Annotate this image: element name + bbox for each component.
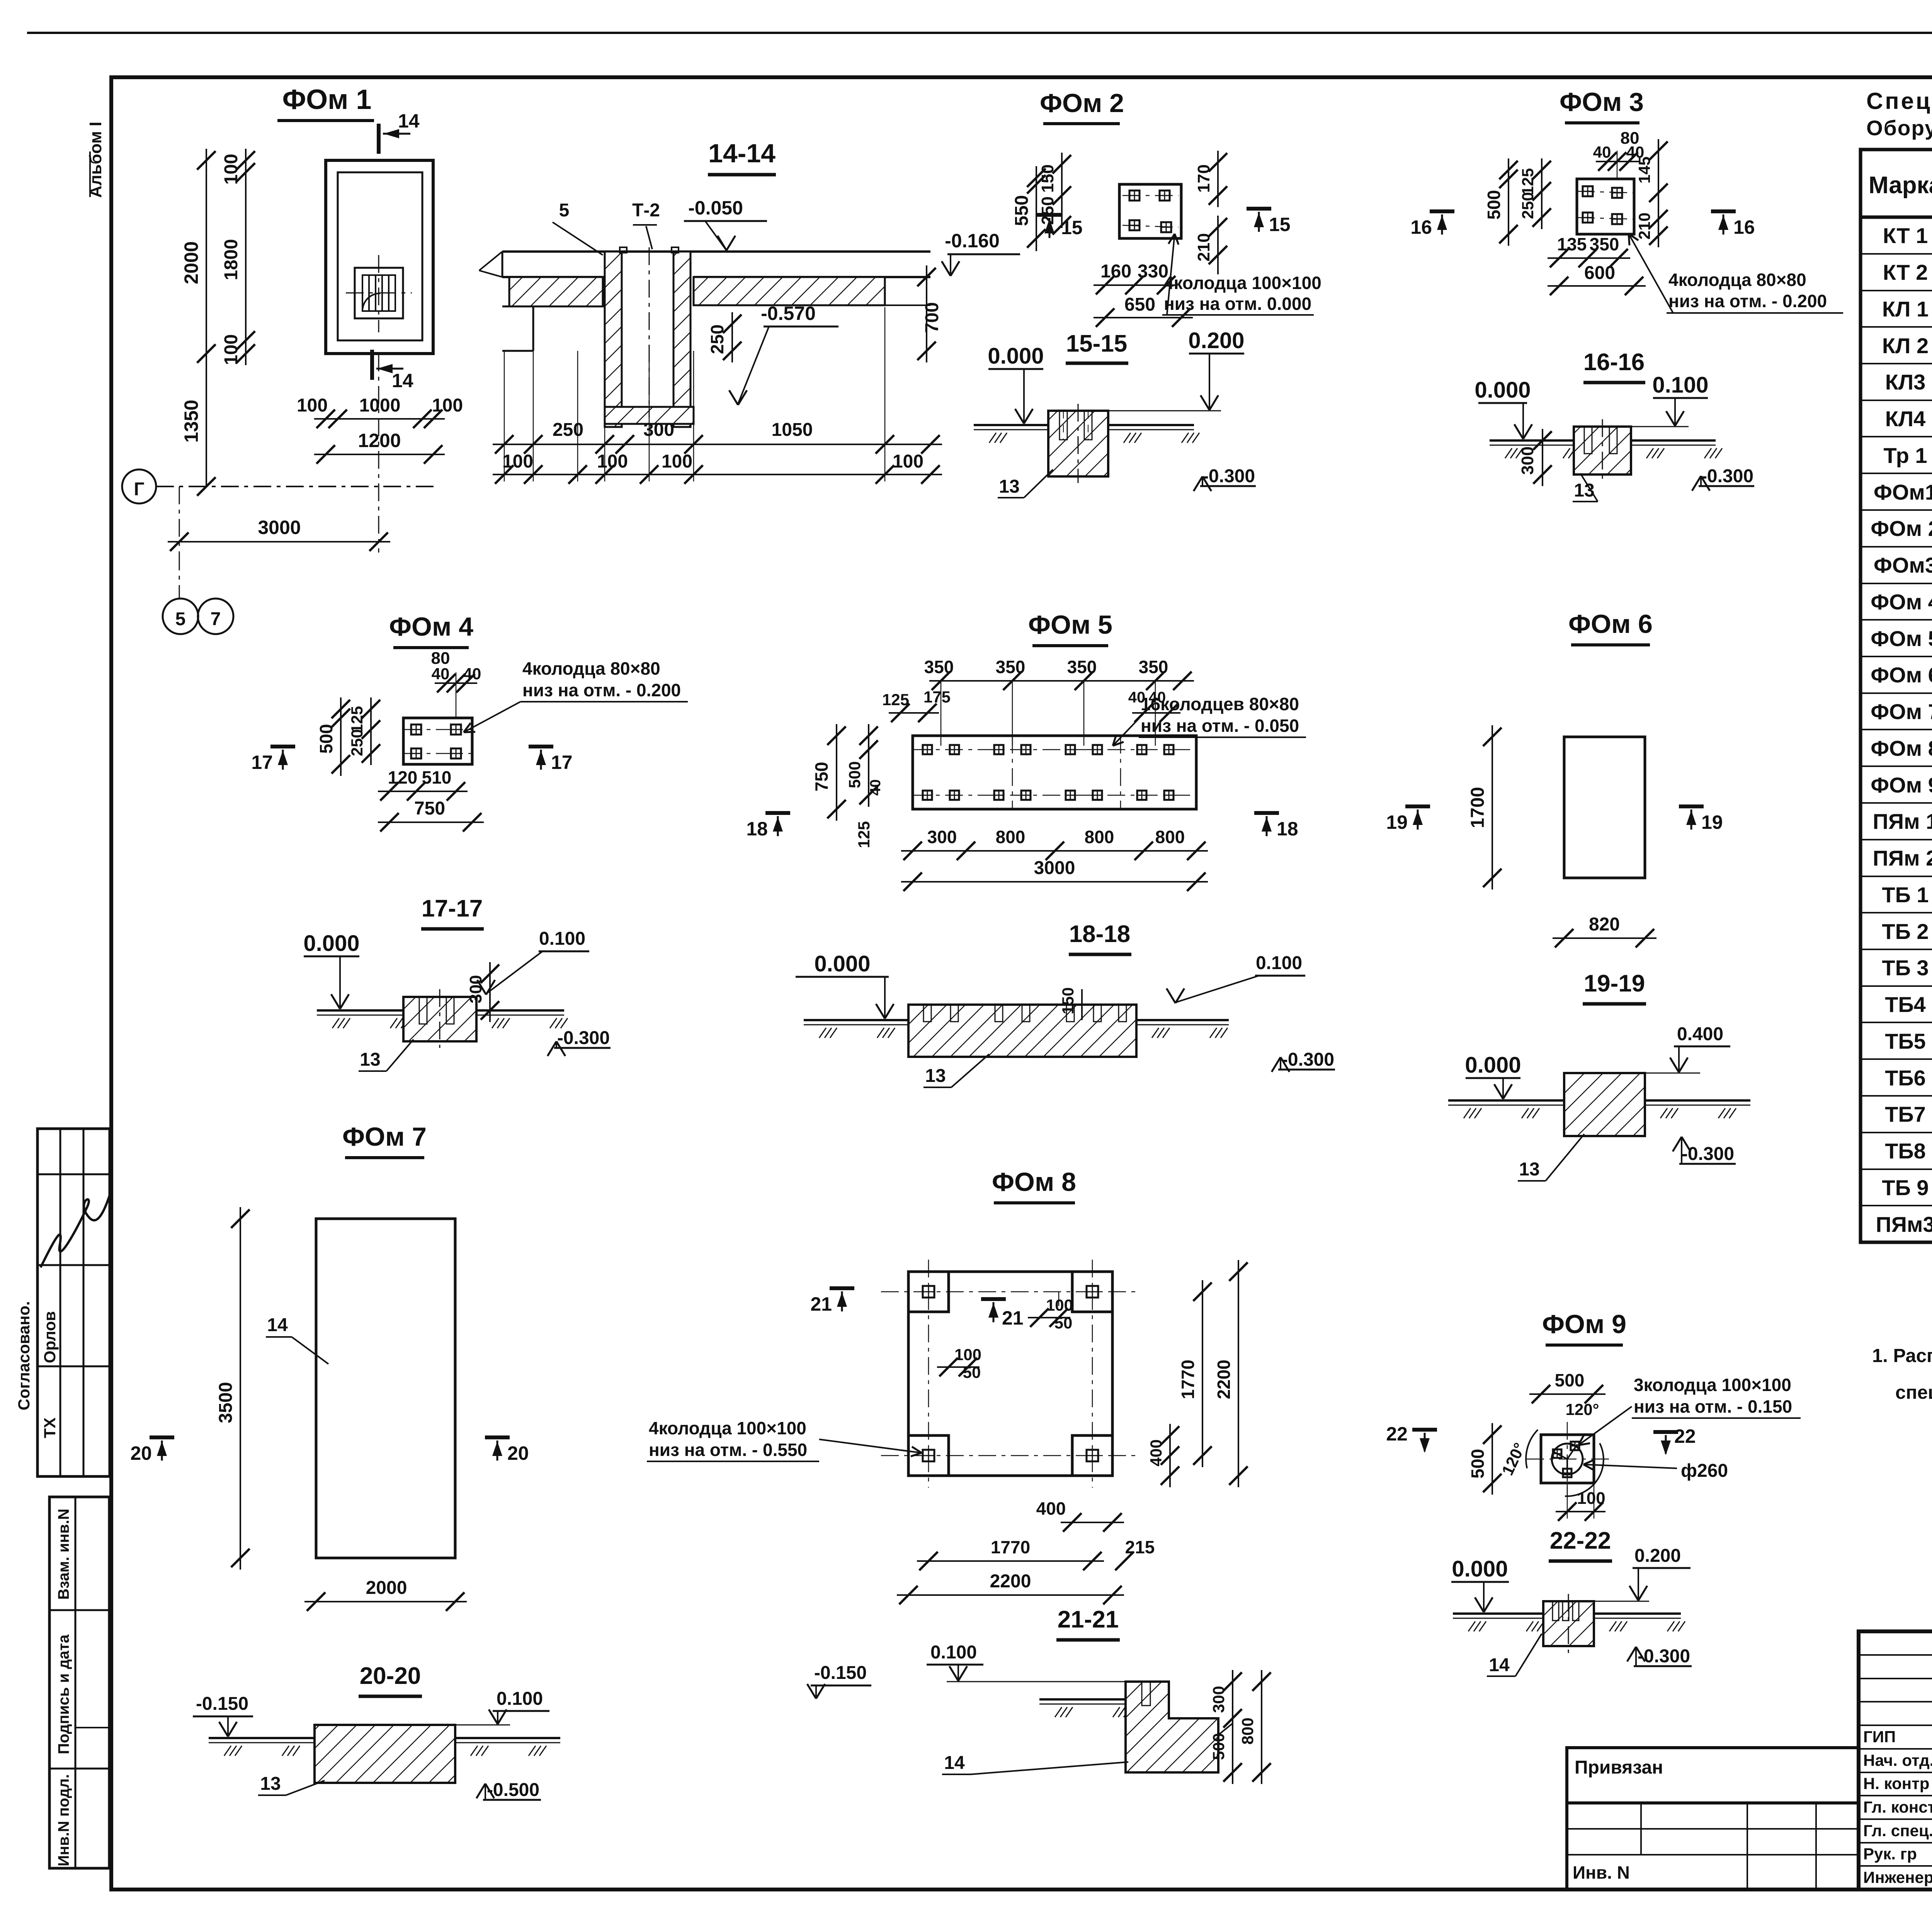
section 20-20 foundation block [315,1725,455,1783]
FOm8 bottom dimension 400 [1061,1522,1124,1523]
svg-text:100: 100 [432,395,463,416]
FOm4 section mark 17 right [529,745,553,748]
svg-text:40: 40 [463,665,481,683]
FOm2 right dimensions 170 210 [1217,151,1219,207]
svg-text:18: 18 [1277,818,1298,840]
svg-text:20: 20 [507,1442,529,1464]
svg-text:19-19: 19-19 [1584,970,1645,997]
svg-text:16: 16 [1410,216,1432,238]
svg-text:Гл. спец.: Гл. спец. [1863,1821,1932,1840]
FOm4 well axes [403,729,472,730]
svg-text:3000: 3000 [1034,858,1075,878]
svg-text:ТХ: ТХ [41,1417,59,1438]
svg-text:Инв.N подл.: Инв.N подл. [55,1774,72,1866]
left stamp signature [41,1188,112,1267]
section 14-14 extension lines [504,351,505,481]
section 15-15 ground line [974,424,1048,426]
FOm5 well axes [913,749,1196,750]
FOm5 section mark 18 left [765,811,790,815]
svg-text:300: 300 [1518,446,1537,474]
svg-text:Инв. N: Инв. N [1573,1862,1630,1883]
section 14-14 bottom dimension 100 labels [493,474,942,475]
section 15-15 level 0.200 [1108,410,1221,412]
svg-text:16колодцев 80×80: 16колодцев 80×80 [1141,694,1299,714]
section 22-22 anchor slots [1553,1601,1559,1621]
FOm3 section mark 16 left [1430,209,1454,213]
svg-text:400: 400 [1036,1498,1066,1519]
svg-text:14: 14 [1489,1655,1510,1675]
FOm7 dimension 3500 [240,1207,241,1570]
svg-text:14: 14 [392,370,413,391]
svg-text:-0.570: -0.570 [761,303,816,324]
svg-text:ПЯм 1: ПЯм 1 [1873,809,1932,833]
svg-text:100: 100 [893,451,923,472]
svg-text:-0.300: -0.300 [1638,1646,1690,1667]
svg-text:низ на отм. - 0.550: низ на отм. - 0.550 [649,1440,807,1460]
svg-text:Орлов: Орлов [41,1311,59,1363]
section 17-17 anchor slots [419,997,427,1024]
svg-text:1. Расположение фундаментов: 1. Расположение фундаментов под оборудов… [1872,1345,1932,1366]
svg-text:1700: 1700 [1468,787,1488,828]
section 17-17 centerline [439,989,440,1048]
FOm2 wells [1129,190,1139,201]
svg-text:Взам. инв.N: Взам. инв.N [55,1509,72,1600]
FOm5 wells row bottom [923,791,932,800]
svg-text:17: 17 [251,752,273,773]
FOm6 section mark 19 right [1679,804,1704,808]
svg-text:100: 100 [502,451,533,472]
FOm5 bottom dimension 300 800 800 800 [901,850,1208,852]
FOm8 right dimension 400 [1169,1424,1171,1487]
FOm8 section mark 21 inner [981,1297,1006,1301]
specification table grid [1861,150,1932,1242]
svg-text:Подпись и дата: Подпись и дата [55,1634,72,1754]
FOm3 bottom dimension 600 [1548,285,1646,287]
svg-text:18-18: 18-18 [1069,921,1131,947]
svg-text:ТБ7: ТБ7 [1885,1102,1926,1126]
axis bubble 7 [198,599,233,634]
svg-text:215: 215 [1125,1537,1155,1557]
section 17-17 dimension 300 [489,962,491,1022]
svg-text:ТБ8: ТБ8 [1885,1139,1926,1163]
svg-text:Гл. конст.: Гл. конст. [1863,1798,1932,1816]
svg-text:Н. контр: Н. контр [1863,1774,1929,1793]
FOm4 left dimensions 125 500 250 [340,697,342,776]
FOm6 plan rectangle [1564,737,1645,878]
svg-text:250: 250 [1519,192,1537,219]
FOm8 corner wells [923,1286,934,1298]
svg-text:Согласовано.: Согласовано. [15,1301,33,1410]
svg-text:1050: 1050 [772,420,813,440]
svg-text:170: 170 [1194,164,1213,192]
FOm2 section mark 15 left [1037,213,1062,217]
svg-text:160: 160 [1100,261,1131,282]
svg-text:ФОм1: ФОм1 [1874,480,1932,504]
svg-text:350: 350 [1139,657,1168,677]
svg-text:350: 350 [924,657,954,677]
svg-text:5: 5 [175,609,186,629]
FOm7 plan rectangle [316,1219,455,1558]
section 18-18 anchor slots [923,1005,931,1022]
svg-text:15: 15 [1061,217,1083,238]
svg-text:0.000: 0.000 [1475,378,1531,403]
section 14-14 right floor band [694,277,885,305]
section 16-16 foundation block [1574,427,1631,474]
svg-text:600: 600 [1584,263,1615,283]
svg-text:0.100: 0.100 [1652,372,1708,398]
section 18-18 level 0.000 [796,976,889,978]
FOm1 dimension 3000 to axis [179,486,180,553]
svg-text:19: 19 [1701,811,1723,833]
axis bubble Г [122,469,156,503]
svg-text:800: 800 [1238,1718,1257,1745]
svg-text:0.000: 0.000 [814,951,870,976]
svg-text:ФОм 1: ФОм 1 [282,84,372,115]
svg-text:3000: 3000 [258,517,301,538]
svg-text:ТБ 1: ТБ 1 [1882,883,1929,907]
section 20-20 ground line [209,1737,315,1739]
svg-text:3колодца 100×100: 3колодца 100×100 [1634,1375,1791,1395]
svg-text:125: 125 [348,706,366,733]
svg-text:Рук. гр: Рук. гр [1863,1845,1917,1863]
section 14-14 dimension 250 vertical [731,312,733,362]
FOm2 well axes [1122,195,1179,196]
svg-text:-0.300: -0.300 [1701,466,1753,486]
section 14-14 pit floor [605,407,694,424]
svg-text:ГИП: ГИП [1863,1728,1896,1746]
svg-text:400: 400 [1147,1439,1165,1466]
svg-text:ФОм 5: ФОм 5 [1871,626,1932,651]
svg-text:17-17: 17-17 [422,895,483,922]
svg-text:17: 17 [551,752,573,773]
svg-text:13: 13 [925,1066,946,1086]
FOm1 left dimension 1350 [206,354,207,486]
FOm9 circle [1552,1444,1583,1475]
svg-text:16-16: 16-16 [1583,349,1645,376]
FOm5 top dimension 350 x4 [929,680,1194,682]
svg-text:низ на отм. - 0.200: низ на отм. - 0.200 [1668,291,1827,311]
svg-text:0.100: 0.100 [930,1642,977,1663]
svg-text:2200: 2200 [1214,1360,1234,1399]
section 22-22 level 0.000 [1451,1581,1509,1583]
FOm1 plan outer rectangle [326,160,433,354]
svg-text:-0.300: -0.300 [1682,1144,1734,1164]
svg-text:ФОм 2: ФОм 2 [1040,88,1124,118]
svg-text:100: 100 [297,395,328,416]
svg-text:Инженер: Инженер [1863,1868,1932,1886]
FOm7 section mark 20 left [150,1435,174,1439]
section 14-14 left break mark [479,252,502,270]
svg-text:1770: 1770 [1178,1360,1198,1399]
FOm9 section mark 22 left [1412,1428,1437,1432]
section 14-14 pit walls [605,252,622,427]
FOm1 anchor template detail [355,268,403,318]
svg-text:1200: 1200 [358,430,401,451]
svg-text:Тр 1: Тр 1 [1884,443,1927,468]
section 21-21 anchor slot [1142,1682,1150,1706]
FOm3 plan rectangle [1577,179,1634,234]
svg-text:820: 820 [1589,914,1620,935]
FOm8 plan outline with corner pads [908,1272,1112,1476]
FOm9 radius lines [1567,1444,1577,1459]
svg-text:100: 100 [954,1345,981,1364]
svg-text:500: 500 [845,761,864,788]
svg-text:0.000: 0.000 [1452,1556,1508,1582]
FOm5 plan rectangle [913,736,1196,809]
section 21-21 stepped foundation [1126,1682,1218,1772]
FOm3 wells [1583,186,1593,196]
svg-text:КТ 2: КТ 2 [1883,260,1928,284]
svg-text:ТБ6: ТБ6 [1885,1066,1926,1090]
section 22-22 centerline [1568,1594,1569,1653]
FOm8 right dimension 1770 2200 [1202,1280,1203,1467]
svg-text:125: 125 [855,821,873,848]
svg-text:7: 7 [211,609,221,629]
svg-text:Альбом I: Альбом I [86,122,105,198]
svg-text:22: 22 [1674,1425,1696,1447]
svg-text:Нач. отд.: Нач. отд. [1863,1751,1932,1769]
svg-text:250: 250 [1038,196,1057,224]
svg-text:ФОм 8: ФОм 8 [992,1167,1076,1197]
svg-text:500: 500 [316,724,336,754]
svg-text:низ на отм. - 0.200: низ на отм. - 0.200 [522,680,681,700]
svg-text:ПЯм3: ПЯм3 [1876,1212,1932,1236]
svg-text:50: 50 [1054,1314,1073,1332]
svg-text:100: 100 [221,154,241,185]
FOm1 left dimension chain 100/1800/100 [245,149,247,365]
svg-text:300: 300 [466,975,485,1003]
FOm2 bottom dimension 650 [1094,317,1193,318]
axis bubble 5 [163,599,198,634]
svg-text:-0.160: -0.160 [945,230,1000,252]
svg-text:40: 40 [432,665,450,683]
section 15-15 level -0.300 [1200,485,1256,487]
section 20-20 level -0.500 [483,1799,541,1801]
FOm6 dimension 820 [1553,937,1656,939]
svg-text:0.100: 0.100 [1256,953,1302,973]
title block outer box [1859,1631,1932,1889]
FOm5 wells row top [923,745,932,754]
FOm1 centerlines [346,293,412,294]
svg-text:ТБ 2: ТБ 2 [1882,919,1929,944]
svg-text:4колодца 100×100: 4колодца 100×100 [1164,273,1321,293]
FOm1 section mark 14 top [377,124,381,154]
svg-text:21-21: 21-21 [1058,1606,1119,1633]
section 22-22 foundation block [1543,1601,1594,1646]
svg-text:ФОм 9: ФОм 9 [1871,773,1932,797]
section 14-14 left under-slab block [509,277,603,306]
FOm2 bottom dimensions 160 330 [1094,284,1178,286]
section 17-17 ground line [317,1009,403,1012]
FOm2 left dimensions 550 250 150 [1036,166,1037,251]
svg-text:1000: 1000 [359,395,401,416]
svg-text:КЛ3: КЛ3 [1885,370,1926,394]
svg-text:ФОм 6: ФОм 6 [1871,663,1932,687]
svg-text:500: 500 [1555,1370,1585,1390]
section 17-17 level -0.300 [554,1047,611,1049]
svg-text:14: 14 [398,110,420,132]
section 14-14 dimension 700 vertical [926,265,927,362]
section 15-15 centerline [1078,404,1079,483]
FOm8 bottom dimensions 1770 215 [917,1560,1104,1562]
svg-text:ФОм 5: ФОм 5 [1028,610,1112,639]
svg-text:ФОм3: ФОм3 [1874,553,1932,577]
svg-text:510: 510 [422,767,452,787]
svg-text:ф260: ф260 [1681,1461,1728,1481]
FOm9 dimension 500 top [1529,1393,1605,1395]
svg-text:175: 175 [923,688,951,706]
svg-text:21: 21 [1002,1307,1024,1329]
section 16-16 level -0.300 [1699,485,1754,487]
svg-text:15: 15 [1269,214,1291,235]
svg-text:-0.050: -0.050 [688,197,743,219]
FOm3 section mark 16 right [1711,209,1736,213]
FOm9 section mark 22 right [1653,1430,1678,1434]
svg-text:ФОм 4: ФОм 4 [389,612,473,641]
FOm2 plan rectangle [1119,184,1181,238]
FOm9 wells on circle [1571,1442,1579,1450]
svg-text:14: 14 [267,1315,288,1335]
svg-text:210: 210 [1194,233,1213,261]
svg-text:низ на отм. - 0.050: низ на отм. - 0.050 [1141,716,1299,736]
svg-text:120°: 120° [1566,1400,1599,1418]
svg-text:40: 40 [1593,143,1611,161]
svg-text:1800: 1800 [221,239,241,281]
svg-text:Г: Г [134,479,144,500]
svg-text:ПЯм 2: ПЯм 2 [1873,846,1932,870]
svg-text:250: 250 [553,420,583,440]
FOm4 plan rectangle [403,718,472,764]
svg-text:135: 135 [1557,234,1587,254]
svg-text:Марка: Марка [1869,172,1932,199]
FOm9 angle arc 120 [1565,1443,1604,1496]
svg-text:40: 40 [867,779,884,796]
section 14-14 right edge step [885,304,930,306]
FOm8 centerlines [881,1291,1140,1293]
FOm5 section mark 18 right [1254,811,1279,815]
svg-text:18: 18 [746,818,768,840]
svg-text:ФОм 6: ФОм 6 [1568,609,1653,639]
svg-text:Привязан: Привязан [1575,1757,1663,1778]
title block signature rows text [1863,1728,1932,1886]
svg-text:спецификацию на фундаменты -: спецификацию на фундаменты - лист 9. [1895,1382,1932,1403]
svg-text:КТ 1: КТ 1 [1883,223,1928,248]
section 16-16 centerline [1602,419,1603,481]
svg-text:700: 700 [922,302,942,333]
svg-text:22-22: 22-22 [1550,1527,1611,1554]
svg-text:0.100: 0.100 [539,929,585,949]
svg-text:16: 16 [1733,216,1755,238]
svg-text:-0.300: -0.300 [557,1028,610,1048]
FOm4 bottom dimensions 120 510 [378,791,468,792]
FOm1 bottom dimension 1200 [314,454,445,455]
FOm4 section mark 17 left [270,745,295,748]
svg-text:500: 500 [1209,1733,1228,1760]
svg-text:5: 5 [559,200,570,221]
svg-text:Т-2: Т-2 [632,200,660,221]
svg-text:1350: 1350 [180,400,202,442]
section 14-14 pit cavity centerline [649,247,650,417]
svg-text:2000: 2000 [366,1578,407,1598]
section 21-21 right break mark [1218,1723,1233,1735]
svg-text:ТБ5: ТБ5 [1885,1029,1926,1053]
svg-text:800: 800 [1085,827,1114,847]
FOm7 dimension 2000 [304,1601,467,1602]
svg-text:300: 300 [1209,1686,1228,1713]
svg-text:500: 500 [1484,190,1504,220]
section 14-14 anchor sleeves [620,247,627,253]
svg-text:14: 14 [944,1753,965,1773]
svg-text:2000: 2000 [180,241,202,284]
svg-text:120: 120 [388,767,418,787]
svg-text:ФОм 7: ФОм 7 [1871,699,1932,724]
FOm9 dimension 100 bottom [1556,1511,1605,1512]
svg-text:22: 22 [1386,1423,1408,1445]
svg-text:4колодца 80×80: 4колодца 80×80 [1668,270,1806,290]
section 14-14 top slab [502,250,930,253]
svg-text:-0.500: -0.500 [487,1780,539,1800]
svg-text:0.200: 0.200 [1188,328,1244,353]
section 22-22 level -0.300 [1634,1665,1692,1667]
FOm4 wells [411,724,421,735]
svg-text:Оборудование, приямков, трап: Оборудование, приямков, трапов, траншей … [1866,116,1932,140]
svg-text:750: 750 [811,762,832,792]
svg-text:ФОм 2: ФОм 2 [1871,516,1932,541]
section 16-16 dimension 300 [1542,429,1543,486]
svg-text:13: 13 [999,476,1019,497]
section 21-21 ground line [1039,1698,1126,1701]
section 19-19 level 0.000 [1466,1077,1520,1079]
svg-text:2200: 2200 [990,1571,1031,1592]
svg-text:низ на отм. 0.000: низ на отм. 0.000 [1164,294,1311,314]
section 16-16 ground line [1490,439,1574,442]
FOm8 section mark 21 upper [830,1286,854,1290]
svg-text:145: 145 [1635,156,1653,184]
section 14-14 bottom dimension chain [493,444,942,445]
svg-text:550: 550 [1012,195,1032,226]
svg-text:350: 350 [1067,657,1097,677]
svg-text:100: 100 [221,334,241,365]
svg-text:4колодца 80×80: 4колодца 80×80 [522,658,660,679]
svg-text:ФОм 9: ФОм 9 [1542,1310,1626,1339]
section 22-22 ground line [1453,1612,1543,1615]
svg-text:3500: 3500 [216,1382,236,1423]
FOm7 section mark 20 right [485,1435,510,1439]
svg-text:низ на отм. - 0.150: низ на отм. - 0.150 [1634,1396,1792,1417]
FOm9 plan square [1541,1435,1594,1483]
FOm8 bottom dimension 2200 [897,1594,1124,1596]
svg-text:125: 125 [1519,168,1537,195]
FOm1 section mark 14 bottom [370,350,374,380]
specification table rows text [1871,223,1932,1236]
svg-text:210: 210 [1635,213,1653,240]
FOm3 left dimensions 125 500 250 [1508,158,1509,246]
section 21-21 right dimensions 300 500 800 [1232,1670,1233,1784]
svg-text:150: 150 [1059,987,1077,1014]
FOm3 right dimensions 145 210 [1658,139,1659,204]
axis line Г [156,486,435,487]
section 18-18 foundation strip [908,1005,1136,1057]
section 17-17 level 0.000 [304,956,359,957]
left margin upper stamp block [37,1129,110,1476]
FOm9 dimension 500 left [1492,1423,1493,1495]
FOm1 bottom dimension chain 100/1000/100 [314,418,445,420]
svg-text:20-20: 20-20 [360,1663,421,1689]
svg-text:19: 19 [1386,811,1408,833]
svg-text:-0.150: -0.150 [196,1694,248,1714]
FOm1 plan inner rectangle [338,172,422,340]
svg-text:ФОм 3: ФОм 3 [1560,87,1644,117]
